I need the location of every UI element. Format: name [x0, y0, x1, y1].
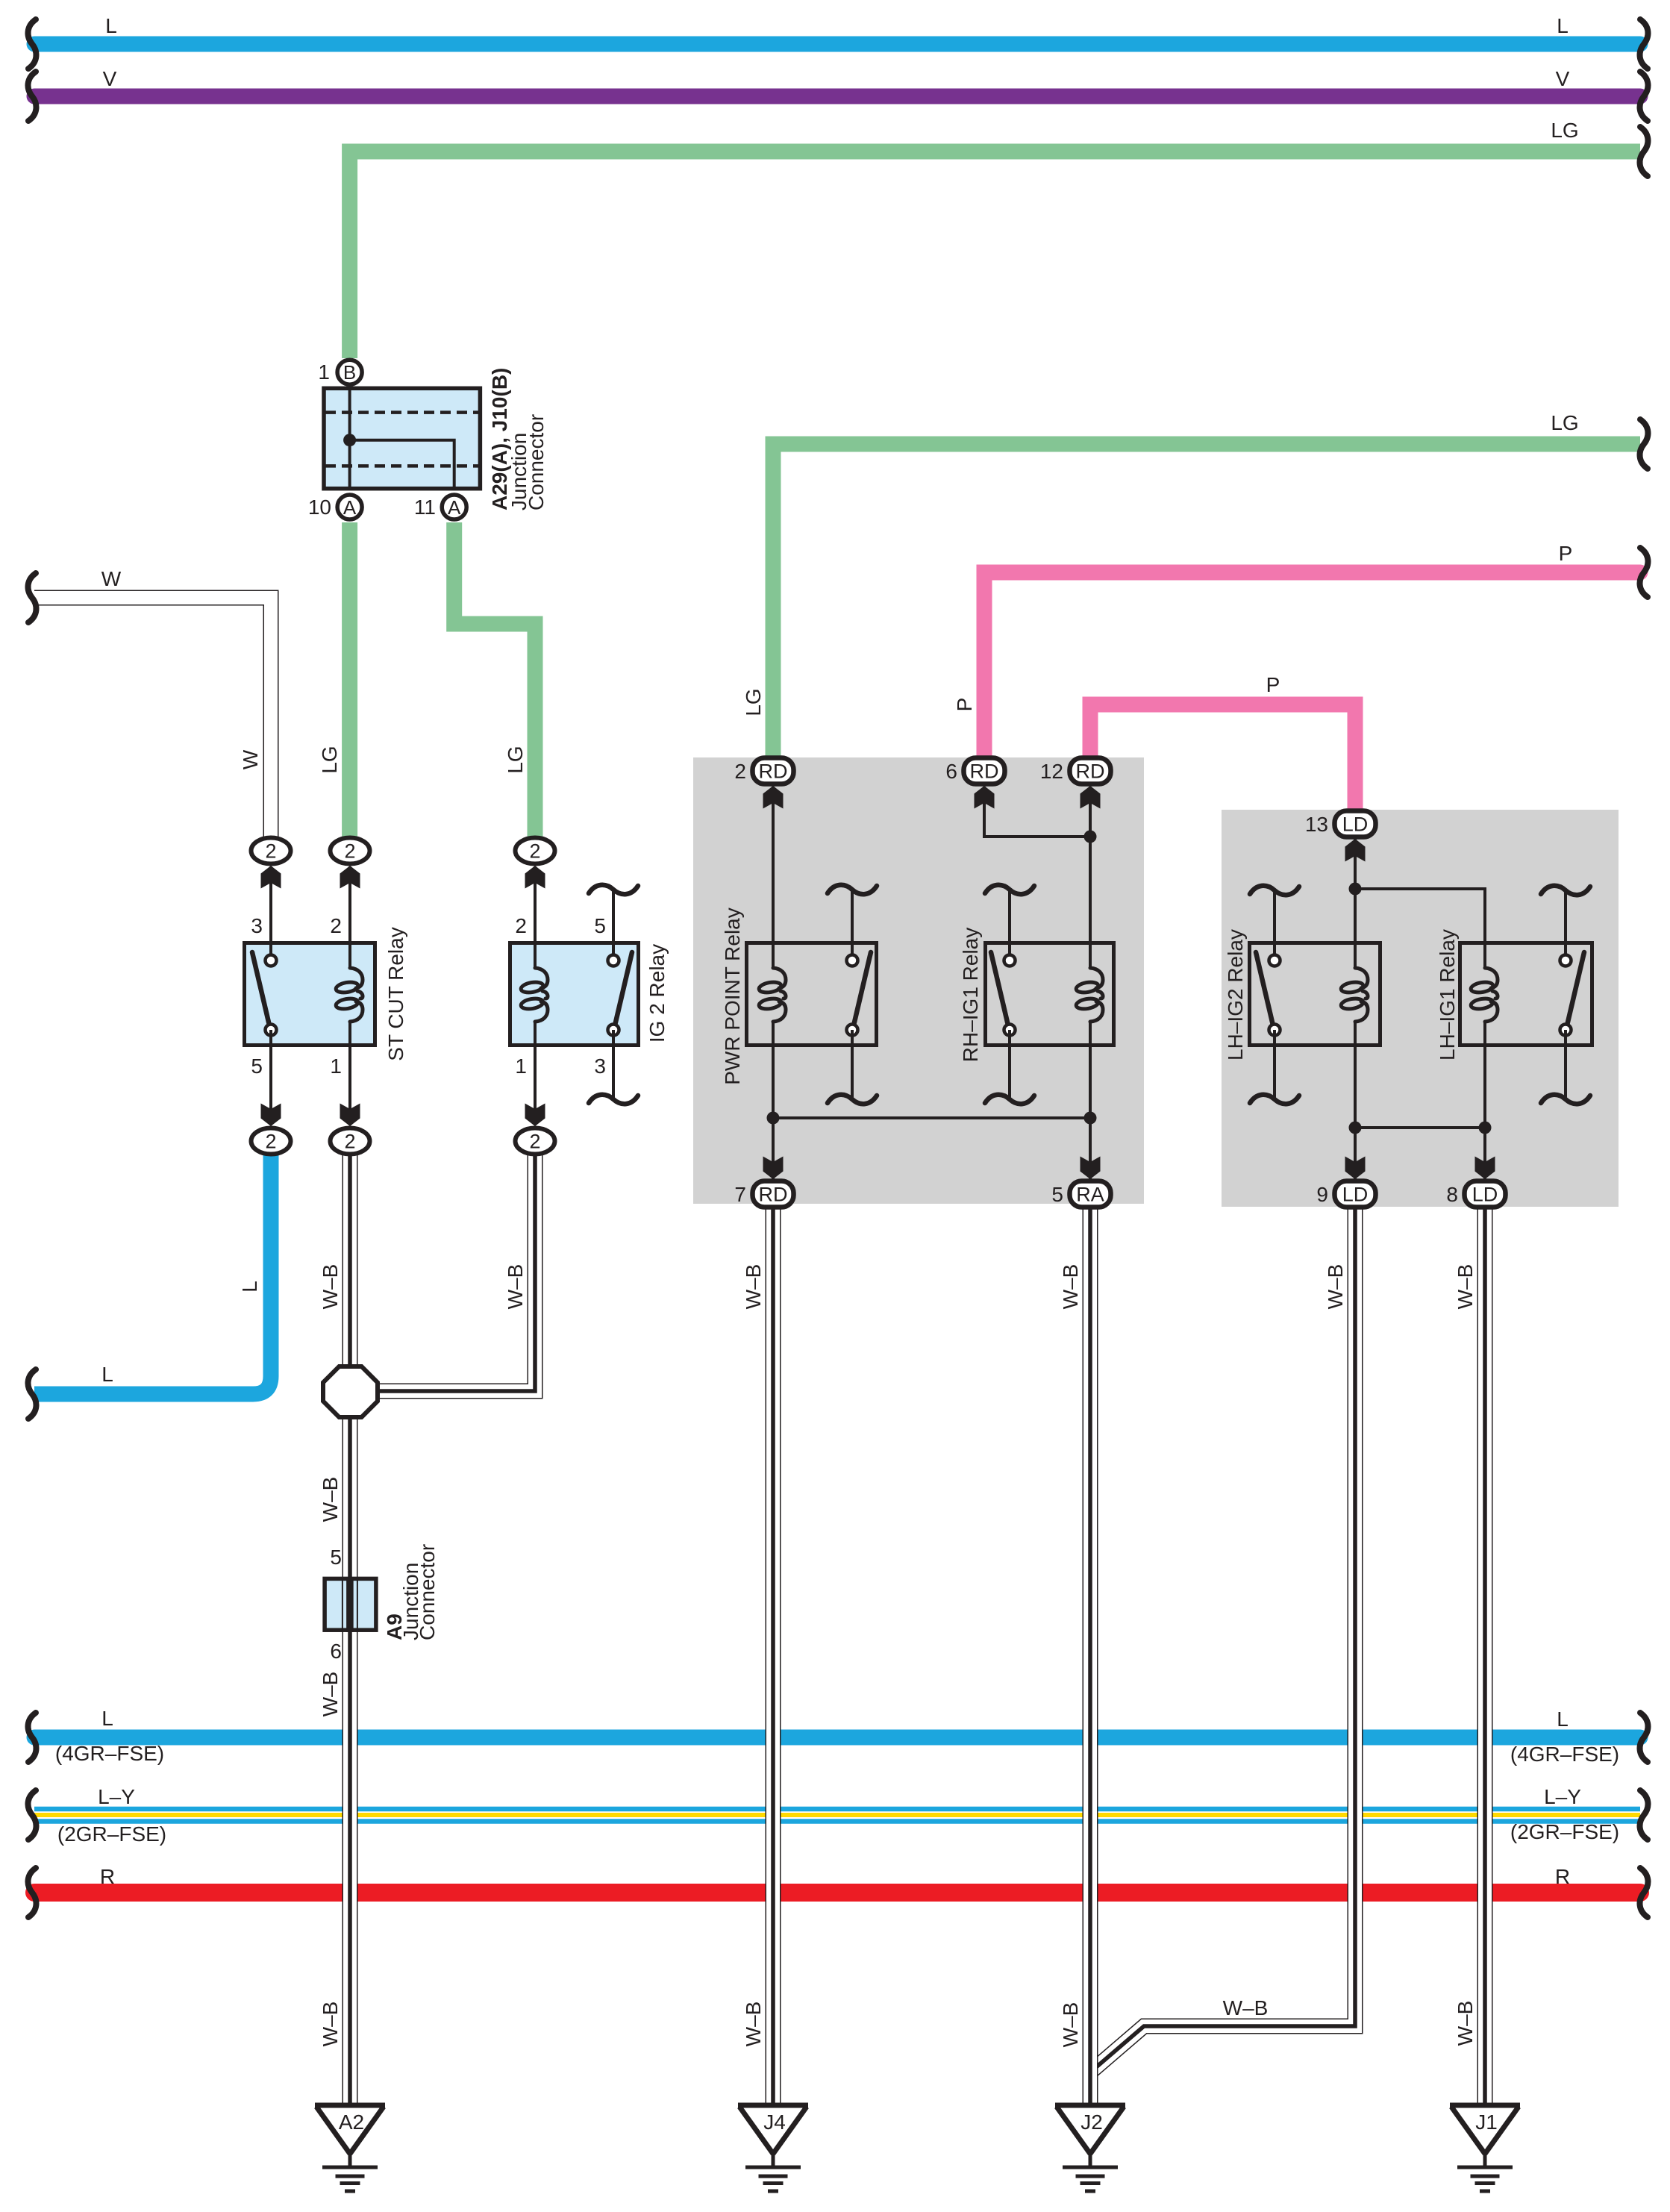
svg-text:6: 6: [330, 1640, 342, 1663]
svg-text:W–B: W–B: [319, 1477, 342, 1522]
svg-text:A: A: [343, 496, 357, 519]
svg-text:W–B: W–B: [742, 2002, 765, 2047]
svg-text:R: R: [100, 1865, 115, 1888]
svg-text:ST CUT Relay: ST CUT Relay: [384, 927, 407, 1060]
svg-text:L–Y: L–Y: [1544, 1785, 1581, 1808]
svg-text:LG: LG: [1551, 119, 1578, 142]
svg-text:9: 9: [1316, 1183, 1328, 1206]
svg-text:IG 2 Relay: IG 2 Relay: [645, 944, 669, 1043]
svg-text:1: 1: [515, 1055, 527, 1078]
svg-text:L: L: [1557, 1708, 1569, 1731]
svg-text:J2: J2: [1081, 2111, 1103, 2134]
svg-text:3: 3: [594, 1055, 606, 1078]
svg-text:RD: RD: [970, 760, 999, 783]
svg-text:W–B: W–B: [1324, 1264, 1347, 1310]
svg-text:LG: LG: [318, 746, 341, 773]
svg-text:W–B: W–B: [504, 1264, 527, 1310]
svg-text:W–B: W–B: [742, 1264, 765, 1310]
svg-text:11: 11: [414, 496, 436, 519]
svg-text:LG: LG: [1551, 411, 1578, 434]
svg-text:A2: A2: [339, 2111, 364, 2134]
svg-text:W–B: W–B: [319, 2002, 342, 2047]
svg-text:P: P: [1559, 542, 1573, 565]
svg-text:J4: J4: [763, 2111, 786, 2134]
svg-text:P: P: [1266, 673, 1280, 696]
svg-text:RH–IG1 Relay: RH–IG1 Relay: [959, 928, 982, 1063]
svg-text:A: A: [448, 496, 461, 519]
svg-text:LG: LG: [504, 746, 527, 773]
svg-text:RD: RD: [759, 1184, 788, 1206]
svg-text:(4GR–FSE): (4GR–FSE): [1510, 1743, 1619, 1766]
svg-text:1: 1: [318, 360, 330, 384]
svg-text:P: P: [953, 698, 976, 712]
svg-text:R: R: [1555, 1865, 1570, 1888]
svg-text:2: 2: [734, 760, 746, 783]
svg-text:12: 12: [1040, 760, 1063, 783]
svg-text:8: 8: [1446, 1183, 1458, 1206]
svg-text:RD: RD: [759, 760, 788, 783]
svg-text:(4GR–FSE): (4GR–FSE): [55, 1742, 164, 1765]
svg-text:W: W: [239, 749, 262, 769]
svg-text:13: 13: [1305, 813, 1328, 836]
svg-text:W–B: W–B: [319, 1264, 342, 1310]
svg-text:1: 1: [330, 1055, 342, 1078]
svg-text:5: 5: [1051, 1183, 1063, 1206]
svg-text:B: B: [343, 361, 356, 384]
svg-text:L: L: [238, 1281, 261, 1293]
svg-text:RA: RA: [1076, 1184, 1104, 1206]
svg-text:W–B: W–B: [1454, 1264, 1477, 1310]
svg-text:W: W: [101, 567, 122, 590]
svg-text:L: L: [105, 14, 117, 37]
svg-text:W–B: W–B: [319, 1672, 342, 1717]
svg-text:5: 5: [251, 1055, 263, 1078]
svg-text:L: L: [101, 1707, 113, 1730]
svg-text:W–B: W–B: [1059, 1264, 1082, 1310]
svg-text:(2GR–FSE): (2GR–FSE): [57, 1822, 166, 1846]
svg-text:2: 2: [330, 914, 342, 937]
svg-text:V: V: [103, 67, 117, 90]
svg-text:W–B: W–B: [1059, 2002, 1082, 2048]
svg-text:2: 2: [265, 840, 276, 863]
svg-text:LD: LD: [1472, 1184, 1498, 1206]
svg-text:W–B: W–B: [1223, 1996, 1269, 2019]
svg-text:5: 5: [594, 914, 606, 937]
svg-text:6: 6: [945, 760, 957, 783]
svg-text:3: 3: [251, 914, 263, 937]
svg-text:J1: J1: [1475, 2111, 1498, 2134]
svg-text:L–Y: L–Y: [98, 1785, 135, 1808]
svg-text:L: L: [101, 1363, 113, 1386]
svg-text:2: 2: [265, 1131, 276, 1153]
svg-text:2: 2: [344, 840, 355, 863]
svg-text:2: 2: [529, 1131, 540, 1153]
svg-text:2: 2: [344, 1131, 355, 1153]
svg-text:RD: RD: [1076, 760, 1105, 783]
svg-text:2: 2: [515, 914, 527, 937]
svg-text:LD: LD: [1342, 1184, 1369, 1206]
svg-text:V: V: [1556, 67, 1570, 90]
svg-text:LD: LD: [1342, 813, 1369, 836]
svg-text:5: 5: [330, 1546, 342, 1569]
svg-text:L: L: [1557, 14, 1569, 37]
svg-text:(2GR–FSE): (2GR–FSE): [1510, 1820, 1619, 1843]
svg-text:PWR POINT Relay: PWR POINT Relay: [721, 907, 744, 1085]
svg-text:7: 7: [734, 1183, 746, 1206]
svg-text:W–B: W–B: [1454, 2001, 1477, 2046]
svg-text:LH–IG2 Relay: LH–IG2 Relay: [1224, 929, 1247, 1060]
svg-text:10: 10: [308, 496, 331, 519]
svg-text:LH–IG1 Relay: LH–IG1 Relay: [1436, 929, 1459, 1060]
svg-text:LG: LG: [742, 688, 765, 716]
svg-text:2: 2: [529, 840, 540, 863]
